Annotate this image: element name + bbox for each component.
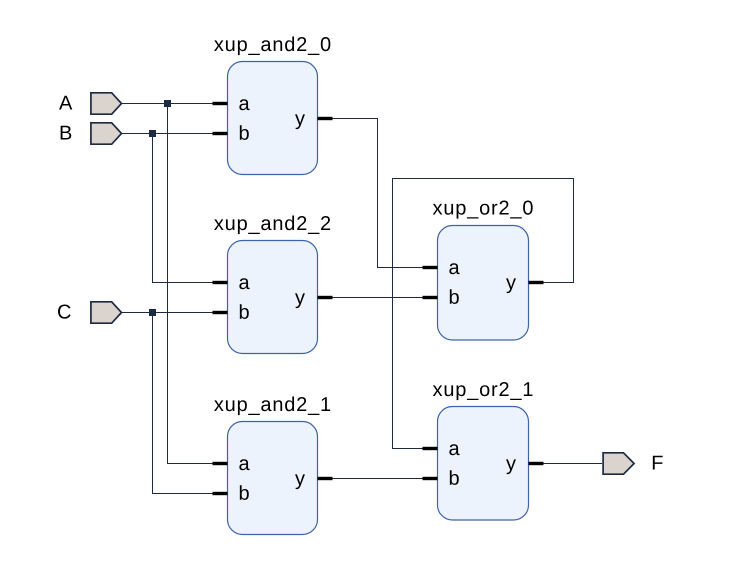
- pin b label of xup_or2_1: [450, 470, 459, 485]
- junction net A: [164, 100, 171, 107]
- port label A: [59, 96, 72, 110]
- pin y label of xup_or2_0: [506, 278, 516, 293]
- port label F: [653, 456, 663, 470]
- port label C: [58, 305, 71, 319]
- pin b label of xup_and2_2: [240, 304, 249, 319]
- block xup_or2_1 (instance or2_1): [433, 382, 533, 520]
- pin a stub of xup_or2_0: [423, 266, 438, 269]
- pin a stub of xup_or2_1: [423, 447, 438, 450]
- wire net C: port C to xup_and2_2 pin b: [122, 312, 228, 314]
- wire xup_or2_1 y to output port F: [544, 463, 603, 465]
- pin a label of xup_and2_2: [239, 278, 249, 289]
- wire xup_and2_1 y to xup_or2_1 pin b: [333, 478, 438, 480]
- pin y stub of xup_and2_0: [318, 117, 333, 120]
- block xup_or2_0 (instance or2_0): [433, 201, 533, 340]
- pin b stub of xup_and2_1: [213, 492, 228, 495]
- pin a label of xup_or2_0: [449, 263, 459, 274]
- pin a stub of xup_and2_2: [213, 281, 228, 284]
- pin y stub of xup_and2_2: [318, 296, 333, 299]
- pin y label of xup_and2_0: [295, 114, 305, 129]
- wire net A: branch down to xup_and2_1 pin a: [168, 104, 228, 464]
- block xup_and2_1 (instance and2_1): [214, 397, 330, 535]
- wire xup_or2_0 y to xup_or2_1 pin a: [393, 179, 574, 449]
- pin b stub of xup_and2_0: [213, 132, 228, 135]
- junction net B: [149, 130, 156, 137]
- wire net B: branch down to xup_and2_2 pin a: [153, 134, 228, 283]
- pin y stub of xup_or2_1: [529, 462, 544, 465]
- pin b label of xup_and2_1: [240, 485, 249, 500]
- pin a label of xup_and2_1: [239, 459, 249, 470]
- input port B: [91, 123, 122, 144]
- pin y label of xup_and2_2: [295, 293, 305, 308]
- wire xup_and2_2 y to xup_or2_0 pin b: [333, 297, 438, 299]
- pin a stub of xup_and2_1: [213, 462, 228, 465]
- wire net A: port A to xup_and2_0 pin a: [122, 103, 228, 105]
- pin y label of xup_or2_1: [506, 459, 516, 474]
- pin b stub of xup_or2_0: [423, 296, 438, 299]
- input port C: [91, 302, 122, 323]
- junction net C: [149, 309, 156, 316]
- pin b label of xup_and2_0: [240, 125, 249, 140]
- pin y label of xup_and2_1: [295, 474, 305, 489]
- pin a label of xup_or2_1: [449, 444, 459, 455]
- wire net C: branch down to xup_and2_1 pin b: [153, 313, 228, 494]
- pin a label of xup_and2_0: [239, 99, 249, 110]
- pin a stub of xup_and2_0: [213, 102, 228, 105]
- pin b stub of xup_or2_1: [423, 477, 438, 480]
- input port A: [91, 93, 122, 114]
- pin y stub of xup_or2_0: [529, 281, 544, 284]
- output port F: [603, 453, 634, 474]
- wire net B: port B to xup_and2_0 pin b: [122, 133, 228, 135]
- pin b stub of xup_and2_2: [213, 311, 228, 314]
- pin b label of xup_or2_0: [450, 289, 459, 304]
- block xup_and2_2 (instance and2_2): [214, 216, 330, 354]
- pin y stub of xup_and2_1: [318, 477, 333, 480]
- wire xup_and2_0 y to xup_or2_0 pin a: [333, 119, 438, 268]
- port label B: [61, 126, 72, 140]
- block xup_and2_0 (instance and2_0): [214, 37, 330, 175]
